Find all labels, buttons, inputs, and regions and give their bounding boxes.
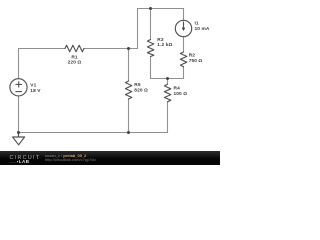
resistor R5: [125, 81, 131, 99]
voltage source V1 circle: [10, 79, 27, 96]
footer title line: [45, 153, 86, 158]
node junction bottom rail / R5: [127, 131, 130, 134]
resistor R4: [164, 84, 170, 102]
node junction bottom rail / ground: [17, 131, 20, 134]
svg-text:220 Ω: 220 Ω: [68, 60, 82, 66]
footer url line: [45, 157, 96, 162]
svg-text:18 V: 18 V: [30, 88, 41, 94]
svg-text:R4: R4: [174, 86, 181, 92]
V1 minus sign: [16, 91, 22, 93]
svg-text:I1: I1: [195, 20, 199, 26]
ground: [18, 133, 20, 138]
svg-text:750 Ω: 750 Ω: [189, 58, 203, 64]
svg-text:V1: V1: [30, 82, 36, 88]
wire down to I1: [183, 9, 185, 21]
node junction middle rail / R4: [166, 77, 169, 80]
wire R1 right to corner: [84, 48, 138, 50]
I1 arrow: [183, 22, 185, 29]
svg-text:100 Ω: 100 Ω: [174, 91, 188, 97]
V1 plus sign: [16, 82, 22, 87]
CircuitLab logo: [10, 156, 44, 164]
I1 arrowhead: [182, 28, 186, 31]
wire R2 to middle rail: [151, 67, 184, 79]
wire R4 bottom lead and bottom rail: [19, 102, 168, 133]
current source I1 circle: [175, 20, 191, 36]
svg-text:1.2 kΩ: 1.2 kΩ: [157, 42, 172, 48]
wire V1 bottom to ground node: [18, 96, 20, 133]
node junction top rail / R3: [149, 7, 152, 10]
svg-text:R2: R2: [189, 53, 196, 59]
wire R5 bottom lead: [128, 99, 130, 133]
wire vertical up to top rail: [137, 9, 139, 49]
wire top-left horizontal to R1: [19, 48, 66, 50]
resistor R3: [147, 40, 153, 57]
node junction R1/R5: [127, 47, 130, 50]
svg-text:R5: R5: [134, 82, 141, 88]
svg-text:R1: R1: [71, 54, 78, 60]
resistor R1: [65, 45, 84, 51]
svg-text:R3: R3: [157, 37, 164, 43]
svg-text:820 Ω: 820 Ω: [134, 88, 148, 94]
wire I1 bottom to R2: [183, 37, 185, 52]
wire top rail: [138, 8, 184, 10]
wire R4 top lead: [167, 79, 169, 85]
resistor R2: [180, 52, 186, 67]
svg-text:10 mA: 10 mA: [195, 26, 210, 32]
wire R3 top lead: [150, 9, 152, 40]
footer bar: [0, 151, 220, 165]
wire V1 top to corner: [18, 49, 20, 79]
wire R3 bottom lead: [150, 57, 152, 79]
wire R5 top lead: [128, 49, 130, 82]
